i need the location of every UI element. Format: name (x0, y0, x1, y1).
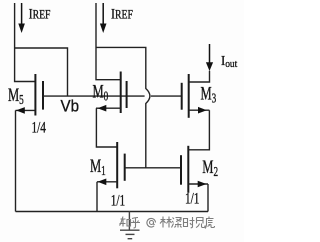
transistor M1 (97, 142, 125, 188)
transistor M0 (96, 72, 127, 114)
svg-text:1/1: 1/1 (111, 192, 125, 209)
label Iout (221, 52, 237, 70)
wire: ground rail (16, 211, 209, 213)
svg-text:IREF: IREF (29, 5, 51, 22)
wire: IREF1 rail to M5 drain (15, 3, 36, 82)
wire: node A branch to Vb line (15, 48, 68, 96)
value 1/1 under M1 (111, 192, 125, 209)
label IREF1 (29, 5, 51, 22)
current arrow IREF2 (100, 3, 107, 33)
svg-text:1/4: 1/4 (32, 119, 47, 136)
wire: IREF2 rail to M0 drain (96, 3, 121, 80)
current arrow Iout (206, 44, 213, 71)
label M3 (201, 84, 217, 106)
wire: M3 drain to Iout (189, 71, 210, 82)
watermark 知乎 @林深时见鹿 (120, 217, 215, 229)
wire: M5 source descent to ground rail (15, 110, 17, 211)
label IREF2 (111, 5, 133, 22)
乎 (131, 218, 140, 229)
ground (120, 212, 140, 239)
wire: M1 source descent (96, 182, 98, 212)
label M0 (93, 82, 109, 104)
时 (184, 217, 195, 228)
wire: Vb bias line (gap at hop) (43, 95, 182, 97)
value 1/4 (32, 119, 47, 136)
svg-text:1/1: 1/1 (185, 190, 199, 207)
label M1 (90, 157, 106, 179)
鹿 (205, 217, 215, 229)
label M5 (8, 86, 24, 108)
value 1/1 under M2 (185, 190, 199, 207)
transistor M3 (182, 74, 210, 118)
svg-text:IREF: IREF (111, 5, 133, 22)
林 (160, 217, 172, 228)
@ (147, 218, 156, 227)
见 (196, 218, 205, 228)
wire: M0 source to M1 drain (96, 108, 117, 147)
知 (120, 217, 131, 227)
label M2 (202, 158, 218, 180)
wire: M3 source to M2 drain (188, 110, 209, 150)
wire: M1-M2 gate line (125, 167, 181, 169)
transistor M5 (16, 74, 44, 116)
wire: IREF2 node branch over Vb line (hop) to M1/M2 gate line (96, 47, 150, 167)
current arrow IREF1 (18, 3, 25, 33)
transistor M2 (181, 146, 208, 193)
深 (172, 218, 182, 228)
label Vb (61, 97, 80, 116)
svg-text:Vb: Vb (61, 97, 80, 116)
wire: M2 source descent (207, 184, 209, 212)
